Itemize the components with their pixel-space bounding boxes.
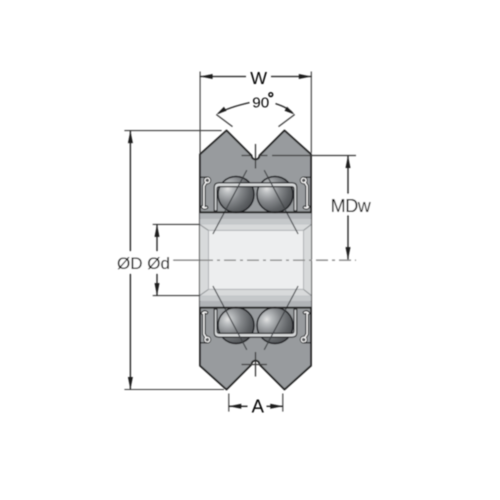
- seal top-right: [305, 182, 309, 208]
- inner ring top line: [200, 211, 311, 213]
- dim Od extension lines: [153, 223, 200, 225]
- vertical centerline bottom: [255, 352, 257, 377]
- bore chamfer lines: [200, 225, 311, 296]
- dim W: [200, 76, 246, 78]
- ball: [218, 177, 254, 213]
- seal top-left: [203, 182, 207, 208]
- seal bottom-right: [305, 312, 309, 338]
- dim OD extension lines: [124, 130, 221, 132]
- inner ring bottom band: [200, 296, 311, 302]
- 90deg left arc arrow: [218, 103, 249, 114]
- wheel body outer ring profile: [200, 131, 311, 390]
- ball: [257, 177, 293, 213]
- inner ring top band: [200, 212, 311, 218]
- svg-text:MDw: MDw: [331, 196, 372, 216]
- svg-text:W: W: [250, 68, 267, 88]
- vertical centerline top: [255, 144, 257, 169]
- svg-text:90: 90: [252, 95, 269, 112]
- bore face: [200, 224, 311, 295]
- dim OD line: [129, 131, 131, 390]
- dim Od line: [156, 224, 158, 295]
- cage band: [214, 183, 297, 211]
- dim A extension lines: [228, 394, 230, 412]
- dim MDw line: [347, 156, 349, 260]
- ball: [218, 308, 254, 344]
- flank extension left: [216, 115, 232, 127]
- dim A: [229, 405, 248, 407]
- OD Od labels: [113, 252, 173, 274]
- MDw label: [328, 194, 373, 215]
- dim W extension lines: [199, 72, 201, 154]
- 90deg right arc arrow: [276, 104, 293, 114]
- ball: [257, 308, 293, 344]
- groove level line top: [242, 155, 251, 157]
- flank extension right: [279, 115, 295, 127]
- horizontal centerline: [171, 259, 201, 261]
- groove level line bottom: [242, 364, 268, 366]
- seal bottom-left: [203, 312, 207, 338]
- cage band: [214, 309, 297, 337]
- inner ring bottom line: [200, 307, 311, 309]
- svg-text:ØD Ød: ØD Ød: [117, 254, 170, 273]
- svg-text:A: A: [252, 395, 265, 416]
- contact lines: [213, 170, 298, 350]
